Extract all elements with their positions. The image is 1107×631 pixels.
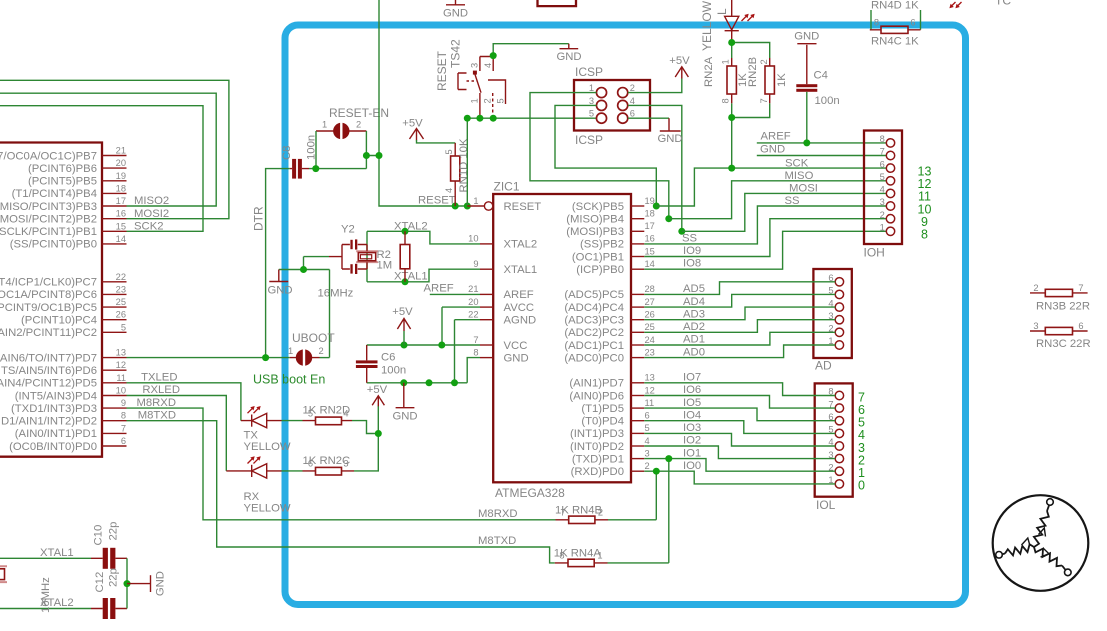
svg-text:RN4C 1K: RN4C 1K <box>871 36 919 48</box>
svg-text:GND: GND <box>657 133 682 145</box>
svg-text:2: 2 <box>483 98 493 103</box>
3-phase wye symbol (black) <box>993 495 1089 591</box>
wire net GND row under C6 <box>367 358 480 383</box>
svg-text:28: 28 <box>645 284 655 294</box>
svg-text:8: 8 <box>473 347 478 357</box>
wire LED L to RN2A/RN2B <box>732 40 770 168</box>
svg-text:SS: SS <box>785 195 801 207</box>
LED L yellow (pin13) <box>700 0 755 51</box>
svg-text:10: 10 <box>468 234 478 244</box>
crystal Y2 16MHz with load caps <box>318 224 378 300</box>
svg-text:(RXD)PD0: (RXD)PD0 <box>571 466 624 478</box>
wire net AREF (pin21 stub) <box>430 293 480 295</box>
svg-text:19: 19 <box>116 171 126 181</box>
svg-text:RESET: RESET <box>504 201 542 213</box>
svg-text:(INT1)PD3: (INT1)PD3 <box>570 428 624 440</box>
green pin numbers 7..0 (IOL) <box>858 390 865 492</box>
wire net AREF to IOH pin8 <box>757 142 887 144</box>
svg-text:PCINT9/OC1B)PC5: PCINT9/OC1B)PC5 <box>0 302 97 314</box>
svg-text:SCLK/PCINT1)PB1: SCLK/PCINT1)PB1 <box>0 226 97 238</box>
svg-text:1: 1 <box>880 223 885 233</box>
svg-text:ATMEGA328: ATMEGA328 <box>495 486 565 500</box>
svg-text:M8TXD: M8TXD <box>138 410 176 422</box>
wire net AD2 <box>644 320 835 333</box>
svg-text:16: 16 <box>645 234 655 244</box>
wire net XTAL2 (8U2) <box>0 608 91 610</box>
resistor RN2D 1K <box>303 405 353 425</box>
wire net AD4 <box>644 294 835 307</box>
junction dots GND row <box>400 379 458 386</box>
svg-text:(SS)PB2: (SS)PB2 <box>580 239 624 251</box>
svg-text:IO8: IO8 <box>683 258 701 270</box>
svg-text:VCC: VCC <box>504 340 528 352</box>
svg-text:13: 13 <box>645 373 655 383</box>
svg-text:1: 1 <box>589 83 594 93</box>
svg-text:7: 7 <box>1078 283 1083 293</box>
svg-text:2: 2 <box>630 83 635 93</box>
power symbol +5V (VCC) <box>392 306 413 345</box>
svg-text:ICSP: ICSP <box>575 133 603 147</box>
IC ATMEGA8U2 (left, partially cut) <box>0 143 127 457</box>
resistor RN2A 1K <box>703 56 749 103</box>
wire RX LED to RN2C <box>282 470 303 472</box>
svg-text:MOSI: MOSI <box>789 183 818 195</box>
svg-text:M8TXD: M8TXD <box>478 535 516 547</box>
junction dots on RESET net <box>312 152 471 210</box>
svg-text:4: 4 <box>444 188 454 193</box>
svg-text:2: 2 <box>880 210 885 220</box>
svg-text:RN4D 1K: RN4D 1K <box>871 0 919 12</box>
svg-text:3: 3 <box>470 63 480 68</box>
svg-text:5: 5 <box>308 408 313 418</box>
svg-text:YELLOW: YELLOW <box>244 503 291 515</box>
svg-text:YELLOW: YELLOW <box>244 441 291 453</box>
wire net +5V AVCC <box>442 307 480 345</box>
svg-text:D1/AIN1/INT2)PD2: D1/AIN1/INT2)PD2 <box>1 416 97 428</box>
svg-text:(ADC3)PC3: (ADC3)PC3 <box>564 315 624 327</box>
ground symbol GND (crystal) <box>267 270 292 297</box>
svg-text:1: 1 <box>470 98 480 103</box>
wire net MOSI to IOH <box>682 193 887 231</box>
wire net SCK (ICSP pin3 to ZIC1 pin19) <box>555 105 656 206</box>
svg-text:MOSI/PCINT2)PB2: MOSI/PCINT2)PB2 <box>0 214 97 226</box>
svg-text:5: 5 <box>121 322 126 332</box>
junction dot DTR/UBOOT row <box>262 354 269 361</box>
svg-text:AD1: AD1 <box>683 334 705 346</box>
connector ICSP <box>574 65 650 147</box>
LED arrows (top right, cut LED) <box>949 2 961 8</box>
svg-text:12: 12 <box>116 360 126 370</box>
svg-text:GND: GND <box>760 143 785 155</box>
svg-text:RN2A: RN2A <box>703 56 715 87</box>
svg-text:9: 9 <box>121 398 126 408</box>
wire net +5V VCC row <box>367 344 480 346</box>
svg-text:21: 21 <box>116 146 126 156</box>
svg-text:C10: C10 <box>93 525 105 546</box>
svg-text:15: 15 <box>116 221 126 231</box>
svg-text:IO9: IO9 <box>683 245 701 257</box>
wire net AD3 <box>644 307 835 320</box>
svg-text:4: 4 <box>483 63 493 68</box>
svg-text:0: 0 <box>858 479 865 493</box>
svg-text:(OC0B/INT0)PD0: (OC0B/INT0)PD0 <box>9 441 97 453</box>
svg-text:16: 16 <box>116 209 126 219</box>
svg-text:XTAL2: XTAL2 <box>504 239 538 251</box>
svg-text:1M: 1M <box>377 260 393 272</box>
svg-text:YELLOW: YELLOW <box>700 0 714 51</box>
wire net MOSI2 loop <box>0 80 229 218</box>
wire net XTAL2 <box>367 231 480 244</box>
svg-text:6: 6 <box>1078 321 1083 331</box>
svg-text:17: 17 <box>645 221 655 231</box>
pushbutton S1 RESET TS42 <box>435 39 506 118</box>
svg-text:XTAL2: XTAL2 <box>394 221 428 233</box>
svg-text:AREF: AREF <box>424 283 454 295</box>
svg-text:8: 8 <box>880 134 885 144</box>
svg-text:4: 4 <box>343 408 348 418</box>
svg-text:7: 7 <box>759 98 769 103</box>
component box (cut off at top) <box>538 0 577 6</box>
green pin numbers 13..8 (IOH) <box>918 164 932 241</box>
svg-text:22: 22 <box>116 272 126 282</box>
svg-text:RN3C 22R: RN3C 22R <box>1036 338 1091 350</box>
svg-text:8: 8 <box>121 411 126 421</box>
wire crystal common to GND and UBOOT net <box>279 257 330 358</box>
wire RN4A to IO1 <box>608 459 669 563</box>
wire RESET net vertical to switch row <box>466 118 468 206</box>
ground symbol GND (switch) <box>556 44 581 63</box>
svg-text:2: 2 <box>319 346 324 356</box>
svg-text:(PCINT6)PB6: (PCINT6)PB6 <box>28 163 97 175</box>
svg-text:5: 5 <box>496 98 506 103</box>
jumper UBOOT <box>288 331 335 367</box>
svg-text:IO2: IO2 <box>683 435 701 447</box>
wire switch pin4 to ground <box>493 44 569 56</box>
wire net SS to IOH <box>644 206 886 244</box>
svg-text:2: 2 <box>356 120 361 130</box>
svg-text:18: 18 <box>645 209 655 219</box>
capacitor C8 100n (DTR coupling) <box>281 135 318 179</box>
svg-text:(ADC4)PC4: (ADC4)PC4 <box>564 302 624 314</box>
svg-text:2: 2 <box>645 461 650 471</box>
svg-text:(T1)PD5: (T1)PD5 <box>581 403 624 415</box>
svg-text:IO7: IO7 <box>683 372 701 384</box>
svg-text:5: 5 <box>880 172 885 182</box>
wire net XTAL1 <box>367 269 480 282</box>
svg-text:RXLED: RXLED <box>142 384 180 396</box>
svg-text:AIN6/TO/INT7)PD7: AIN6/TO/INT7)PD7 <box>0 352 97 364</box>
resistor R2 1M <box>377 231 410 281</box>
ground symbol GND (C6) <box>392 383 417 423</box>
junction dot switch pin4 <box>490 52 497 59</box>
connector IOL <box>815 383 853 512</box>
svg-text:21: 21 <box>468 284 478 294</box>
svg-text:(OC1)PB1: (OC1)PB1 <box>572 251 624 263</box>
svg-text:GND: GND <box>392 411 417 423</box>
IC U2 ZIC1 ATMEGA328 <box>467 180 655 501</box>
power symbol +5V (ICSP pin2) <box>628 55 690 93</box>
svg-text:(MISO)PB4: (MISO)PB4 <box>566 214 624 226</box>
svg-text:4: 4 <box>880 185 885 195</box>
svg-text:(ICP)PB0: (ICP)PB0 <box>576 264 624 276</box>
svg-text:RESET: RESET <box>435 50 449 91</box>
power symbol +5V (reset pullup) <box>402 118 455 143</box>
wire net IO4 <box>644 421 835 434</box>
svg-text:3: 3 <box>589 96 594 106</box>
svg-text:26: 26 <box>645 310 655 320</box>
svg-text:24: 24 <box>645 335 655 345</box>
svg-text:100n: 100n <box>815 95 840 107</box>
svg-text:20: 20 <box>116 158 126 168</box>
svg-text:AREF: AREF <box>504 289 534 301</box>
svg-text:(PCINT10)PC4: (PCINT10)PC4 <box>21 315 97 327</box>
wire TX LED to RN2D <box>282 420 303 422</box>
svg-text:AD5: AD5 <box>683 283 705 295</box>
svg-text:11: 11 <box>645 398 655 408</box>
svg-text:(ADC5)PC5: (ADC5)PC5 <box>564 289 624 301</box>
svg-text:IO3: IO3 <box>683 422 701 434</box>
svg-text:25: 25 <box>645 322 655 332</box>
wire net SCK to IOH <box>656 168 886 206</box>
svg-text:6: 6 <box>880 159 885 169</box>
svg-text:(INT0)PD2: (INT0)PD2 <box>570 441 624 453</box>
svg-text:AD4: AD4 <box>683 296 705 308</box>
wire net IO3 <box>644 433 835 446</box>
svg-text:22p: 22p <box>108 568 120 587</box>
svg-text:TS/AIN5/INT6)PD6: TS/AIN5/INT6)PD6 <box>1 365 97 377</box>
svg-text:(TXD)PD1: (TXD)PD1 <box>572 453 624 465</box>
capacitor C6 100n <box>356 345 406 383</box>
svg-text:(SCK)PB5: (SCK)PB5 <box>572 201 624 213</box>
svg-text:2: 2 <box>598 507 603 517</box>
wire net TXLED <box>127 383 241 421</box>
svg-text:26: 26 <box>116 310 126 320</box>
LED RX yellow <box>226 456 291 514</box>
svg-text:25: 25 <box>116 297 126 307</box>
ground symbol GND (top, DTR area) <box>443 0 468 20</box>
svg-text:RN1D 10K: RN1D 10K <box>458 138 470 192</box>
svg-text:9: 9 <box>473 259 478 269</box>
wire net RESET (jumper loop + main run to ZIC1 pin 1) <box>309 0 467 206</box>
svg-text:AD: AD <box>815 359 832 373</box>
junction dots ZIC1 pins 19/18/17 <box>653 203 686 235</box>
wire switch row to ICSP pin5 <box>467 117 596 119</box>
svg-text:IOL: IOL <box>816 498 836 512</box>
svg-text:RN2B: RN2B <box>747 57 759 87</box>
svg-text:(ADC0)PC0: (ADC0)PC0 <box>564 352 624 364</box>
svg-text:7/OC0A/OC1C)PB7: 7/OC0A/OC1C)PB7 <box>0 150 97 162</box>
svg-text:23: 23 <box>645 347 655 357</box>
resistor RN4A 1K <box>554 548 608 567</box>
selection highlight box <box>285 25 966 605</box>
svg-text:5: 5 <box>444 149 454 154</box>
svg-text:16MHz: 16MHz <box>40 577 52 613</box>
svg-text:2: 2 <box>759 59 769 64</box>
svg-text:RN3B 22R: RN3B 22R <box>1036 301 1090 313</box>
svg-text:C6: C6 <box>381 352 395 364</box>
svg-text:13: 13 <box>116 348 126 358</box>
svg-text:27: 27 <box>645 297 655 307</box>
svg-text:XTAL1: XTAL1 <box>504 264 538 276</box>
svg-text:3: 3 <box>343 459 348 469</box>
svg-text:RESET-EN: RESET-EN <box>329 106 389 120</box>
svg-text:L: L <box>715 8 729 15</box>
ground symbol GND (bottom left, rotated) <box>127 571 167 596</box>
svg-text:ICSP: ICSP <box>575 65 603 79</box>
svg-text:10: 10 <box>116 386 126 396</box>
svg-text:TXLED: TXLED <box>141 372 177 384</box>
svg-text:7: 7 <box>121 423 126 433</box>
svg-text:Y2: Y2 <box>341 224 355 236</box>
resistor RN1D 10K <box>444 138 470 206</box>
svg-text:23: 23 <box>116 284 126 294</box>
svg-text:AD0: AD0 <box>683 346 705 358</box>
svg-text:+5V: +5V <box>402 118 423 130</box>
junction dot caps common <box>124 580 131 587</box>
svg-text:20: 20 <box>468 297 478 307</box>
wire net MISO2 loop <box>0 93 216 206</box>
svg-text:XTAL1: XTAL1 <box>394 270 428 282</box>
wire net M8TXD <box>127 421 555 563</box>
svg-text:(PCINT5)PB5: (PCINT5)PB5 <box>28 176 97 188</box>
svg-text:AGND: AGND <box>504 315 537 327</box>
svg-text:IO4: IO4 <box>683 409 701 421</box>
svg-text:AD2: AD2 <box>683 321 705 333</box>
jumper RESET-EN <box>316 106 389 141</box>
wire RN4B to IO0 <box>608 471 656 520</box>
svg-text:1: 1 <box>721 59 731 64</box>
ground symbol GND (C4, inverted) <box>794 31 819 85</box>
svg-text:AIN2/PCINT11)PC2: AIN2/PCINT11)PC2 <box>0 327 97 339</box>
wire net GND to IOH pin7 <box>757 155 887 157</box>
wire net MOSI (ICSP pin4 to ZIC1 pin17) <box>628 105 682 231</box>
svg-text:GND: GND <box>504 352 529 364</box>
svg-text:(T1/PCINT4)PB4: (T1/PCINT4)PB4 <box>12 188 97 200</box>
junction dots switch row <box>464 115 497 122</box>
svg-text:1K: 1K <box>776 73 788 87</box>
svg-text:1: 1 <box>288 346 293 356</box>
wire crystal side bus <box>366 231 368 281</box>
junction dot crystal gnd <box>300 266 307 273</box>
svg-text:DTR: DTR <box>252 206 266 231</box>
resistor RN4C 1K <box>870 18 921 48</box>
svg-text:15: 15 <box>645 246 655 256</box>
wire net IO6 <box>644 396 835 409</box>
svg-text:IO5: IO5 <box>683 397 701 409</box>
svg-text:ZIC1: ZIC1 <box>494 180 520 194</box>
svg-text:MISO: MISO <box>785 170 814 182</box>
svg-text:5: 5 <box>645 423 650 433</box>
resistor RN4D 1K (cut at top) <box>871 0 921 30</box>
svg-text:4: 4 <box>630 96 635 106</box>
svg-text:6: 6 <box>630 109 635 119</box>
svg-text:RX: RX <box>244 491 260 503</box>
svg-text:(TXD1/INT3)PD3: (TXD1/INT3)PD3 <box>11 403 97 415</box>
junction dots VCC row <box>401 342 446 349</box>
svg-text:GND: GND <box>155 571 167 596</box>
svg-text:14: 14 <box>645 259 655 269</box>
ground symbol GND (ICSP pin6) <box>628 118 683 145</box>
svg-text:3: 3 <box>645 448 650 458</box>
svg-text:AREF: AREF <box>761 131 791 143</box>
svg-text:IO6: IO6 <box>683 384 701 396</box>
svg-text:C12: C12 <box>94 572 106 593</box>
svg-text:IOH: IOH <box>864 246 885 260</box>
capacitor C4 100n <box>796 70 839 143</box>
svg-text:C8: C8 <box>281 146 293 160</box>
svg-text:AVCC: AVCC <box>504 302 535 314</box>
svg-text:(MOSI)PB3: (MOSI)PB3 <box>566 226 624 238</box>
resistor RN3B 22R <box>1030 283 1090 313</box>
svg-text:OC1A/PCINT8)PC6: OC1A/PCINT8)PC6 <box>0 289 97 301</box>
svg-text:(ADC2)PC2: (ADC2)PC2 <box>564 327 624 339</box>
wire net IO5 <box>644 408 835 421</box>
svg-text:GND: GND <box>267 285 292 297</box>
junction dots XTAL <box>402 228 409 285</box>
wire net IO8 to IOH <box>644 231 886 269</box>
svg-text:7: 7 <box>560 507 565 517</box>
capacitor C12 22p <box>91 568 127 619</box>
wire net MISO to IOH <box>669 181 887 219</box>
svg-text:(SS/PCINT0)PB0: (SS/PCINT0)PB0 <box>10 239 97 251</box>
svg-text:18: 18 <box>116 183 126 193</box>
svg-text:GND: GND <box>794 31 819 43</box>
svg-text:11: 11 <box>116 373 126 383</box>
wire net AGND <box>455 320 481 383</box>
svg-text:SCK2: SCK2 <box>134 221 164 233</box>
svg-text:C4: C4 <box>814 70 828 82</box>
resistor RN4B 1K <box>555 505 608 524</box>
svg-text:M8RXD: M8RXD <box>478 508 518 520</box>
wire net IO2 <box>644 446 835 459</box>
svg-text:100n: 100n <box>381 365 406 377</box>
svg-text:+5V: +5V <box>669 55 690 67</box>
svg-text:MISO2: MISO2 <box>134 195 169 207</box>
svg-text:XTAL1: XTAL1 <box>40 547 74 559</box>
svg-text:14: 14 <box>116 234 126 244</box>
resistor RN3C 22R <box>1030 321 1091 350</box>
wire net MISO (ICSP pin1 to ZIC1 pin18) <box>530 93 669 219</box>
svg-text:USB boot En: USB boot En <box>253 373 325 387</box>
crystal 16MHz (cut at left) <box>0 566 52 613</box>
svg-text:TX: TX <box>244 430 259 442</box>
connector AD <box>813 269 851 373</box>
svg-text:1: 1 <box>322 120 327 130</box>
svg-text:(T0)PD4: (T0)PD4 <box>581 416 624 428</box>
svg-text:2: 2 <box>1033 283 1038 293</box>
svg-text:8: 8 <box>874 18 879 28</box>
svg-text:GND: GND <box>443 8 468 20</box>
wire UBOOT pin2 to gnd net <box>320 357 330 359</box>
svg-text:TC: TC <box>995 0 1011 8</box>
svg-text:(AIN0)PD6: (AIN0)PD6 <box>569 390 624 402</box>
svg-text:1: 1 <box>473 196 478 206</box>
wire net M8RXD <box>127 408 556 520</box>
wire +5V to RN2D/RN2C <box>352 406 378 471</box>
svg-text:+5V: +5V <box>392 306 413 318</box>
svg-text:4: 4 <box>645 436 650 446</box>
svg-text:AD3: AD3 <box>683 308 705 320</box>
svg-text:UBOOT: UBOOT <box>292 331 335 345</box>
svg-text:12: 12 <box>645 385 655 395</box>
svg-text:3: 3 <box>1033 321 1038 331</box>
LED TX yellow <box>241 406 291 453</box>
svg-text:6: 6 <box>910 18 915 28</box>
wire net IO9 to IOH <box>644 219 886 257</box>
svg-text:IO1: IO1 <box>683 447 701 459</box>
svg-text:T4/ICP1/CLK0)PC7: T4/ICP1/CLK0)PC7 <box>0 277 97 289</box>
svg-text:IO0: IO0 <box>683 460 701 472</box>
